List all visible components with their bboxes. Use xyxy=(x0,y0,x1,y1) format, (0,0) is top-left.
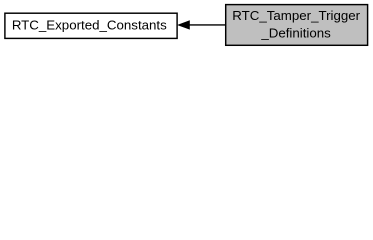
node RTC_Tamper_Trigger_Definitions label line1 xyxy=(232,8,360,23)
node RTC_Tamper_Trigger_Definitions box xyxy=(226,5,368,46)
svg-text:RTC_Tamper_Trigger: RTC_Tamper_Trigger xyxy=(232,8,360,23)
svg-text:RTC_Exported_Constants: RTC_Exported_Constants xyxy=(12,17,167,32)
wire edge line xyxy=(189,24,226,26)
node RTC_Exported_Constants label xyxy=(12,17,167,32)
arrowhead pointing to RTC_Exported_Constants xyxy=(178,21,189,29)
svg-text:_Definitions: _Definitions xyxy=(260,25,331,40)
node RTC_Exported_Constants box xyxy=(5,13,177,38)
node RTC_Tamper_Trigger_Definitions label line2 xyxy=(260,25,331,40)
